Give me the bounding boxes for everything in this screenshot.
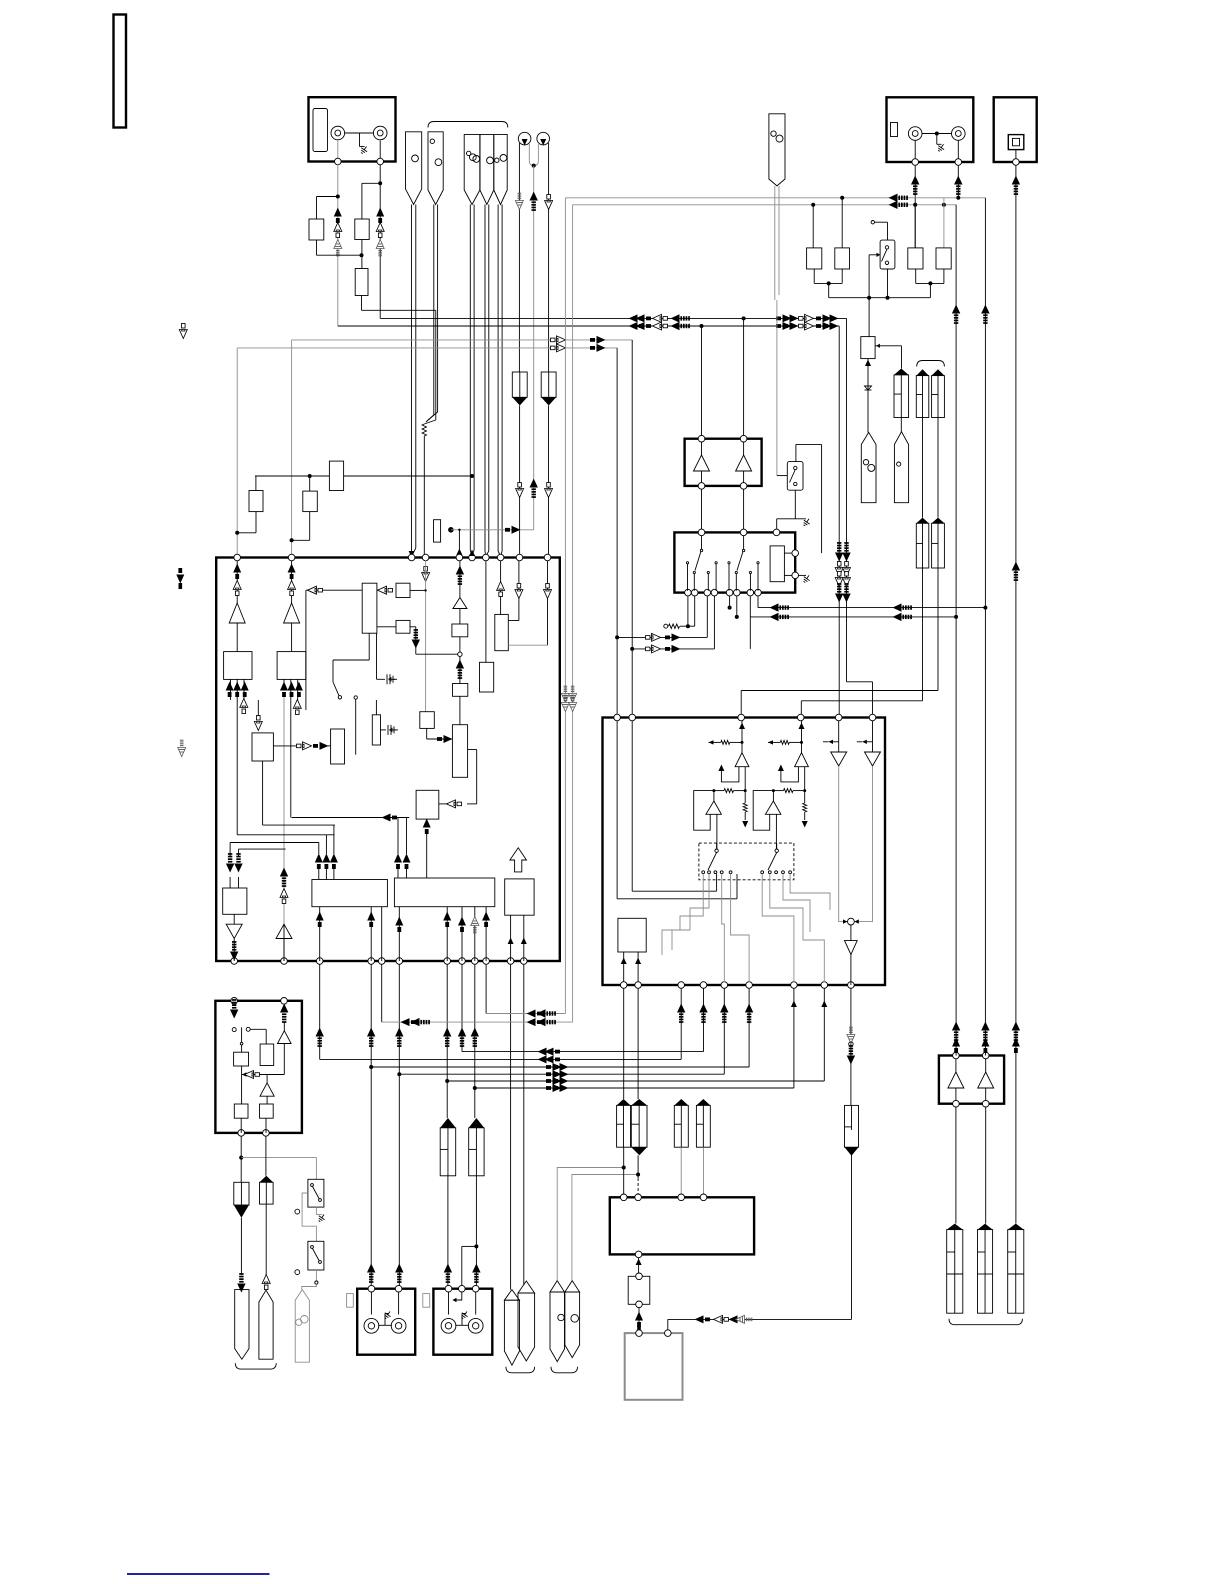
page margin bar bbox=[114, 15, 127, 128]
node on antenna branch bbox=[448, 527, 454, 533]
control wire down to V201 bbox=[868, 255, 870, 337]
component R201 bbox=[807, 248, 822, 269]
wires U401 to U403 bbox=[701, 489, 703, 532]
main block U402 (video/chroma) bbox=[603, 718, 886, 986]
U402 amp ch2 bbox=[795, 753, 809, 767]
block U323 bbox=[495, 614, 509, 650]
row to U403 pin4 bbox=[632, 648, 715, 650]
bundle row3 bbox=[371, 1066, 749, 1068]
arrow into U322 bottom bbox=[423, 819, 431, 835]
block H and arrows bbox=[420, 712, 435, 729]
pin CN201-1 bbox=[912, 159, 919, 166]
cable pair from CN104 bbox=[469, 205, 471, 551]
wire U312 to bottom pin bbox=[283, 697, 285, 924]
gray row B bbox=[382, 1021, 573, 1023]
block U332 wide bbox=[312, 880, 388, 907]
component R203 bbox=[908, 248, 923, 269]
wire U314 right to v425 bbox=[410, 589, 426, 591]
RCA box CN307 bbox=[433, 1289, 492, 1355]
wire R104 bottom to riser b bbox=[255, 512, 257, 533]
twin flag CN309a bbox=[550, 1292, 565, 1362]
inline connector on antenna right bbox=[541, 372, 556, 397]
amp A2 in IC301 bbox=[291, 561, 293, 603]
component R106 on line bbox=[329, 461, 343, 490]
connector flag CN203 bbox=[861, 432, 876, 502]
block U315 bbox=[396, 620, 410, 633]
U402 ch2 main down bbox=[804, 767, 806, 791]
margin symbol hatched down arrow bbox=[178, 740, 186, 756]
wire amp mid to pin bbox=[283, 939, 285, 962]
cable pair from CN103 bbox=[433, 205, 435, 416]
connector flag CN105 bbox=[480, 134, 494, 204]
component R105 above IC301 bbox=[303, 491, 318, 512]
arrow out IC302 right bbox=[280, 1004, 288, 1023]
staircase to left pins bbox=[662, 930, 680, 955]
bus row2 top-right bbox=[573, 204, 957, 206]
brace under CN308 bbox=[506, 1367, 535, 1373]
switch S201 bottom wire bbox=[887, 269, 889, 298]
block U502 bbox=[628, 1276, 650, 1304]
module inside CN101 bbox=[313, 109, 328, 152]
bus arrows bbox=[636, 322, 652, 330]
bus B2 bbox=[338, 325, 839, 327]
wire bus1 drop right bbox=[846, 318, 848, 681]
CN306 ground link bbox=[378, 1324, 392, 1326]
long wire U402 pin9 down bbox=[850, 988, 852, 1105]
wire U313 to U315 bbox=[377, 626, 396, 628]
amp in IC302 lower bbox=[260, 1083, 274, 1096]
down triangle under U331 bbox=[226, 924, 242, 938]
wire J1-J2 bbox=[345, 132, 374, 134]
U402 ch2 feedback bracket bbox=[753, 791, 773, 831]
component R202 bbox=[835, 248, 850, 269]
holes CN203 bbox=[863, 460, 868, 465]
twin flag CN308b bbox=[518, 1293, 535, 1361]
down triangle under mix node bbox=[850, 925, 852, 941]
wire IC302 pin1 down bbox=[240, 1136, 242, 1182]
block U317 bbox=[252, 733, 273, 761]
wire R105 bottom bbox=[309, 512, 311, 541]
S-video jack bbox=[1008, 135, 1024, 150]
two-triangle box U504 bbox=[939, 1056, 1004, 1104]
feed to S401 bbox=[777, 475, 787, 477]
component R102 bbox=[355, 219, 369, 240]
signal arrows on CN101-2 wire bbox=[376, 208, 384, 224]
pin CN201-2 bbox=[955, 159, 962, 166]
loop antenna terminal A2 bbox=[537, 132, 550, 145]
inline connector on antenna left bbox=[512, 372, 527, 397]
node under R201/R202 bbox=[813, 269, 815, 283]
twin flag CN309b bbox=[565, 1292, 580, 1358]
battery connector CN503 bbox=[1008, 1230, 1024, 1314]
connector box CN101 (tuner/ant in) bbox=[309, 97, 396, 161]
pin wires below IC301 bbox=[319, 964, 321, 1059]
stems CN211 to CN212 bbox=[922, 418, 924, 518]
blue reference line bbox=[127, 1573, 270, 1575]
wire R103 to bus corner bbox=[361, 296, 363, 311]
flag CN302 bbox=[235, 1290, 249, 1360]
component V201 bbox=[861, 337, 875, 359]
flag connector CN205 top middle bbox=[769, 114, 785, 186]
wires U334 to pins bbox=[510, 915, 512, 961]
arrows under U402 pins bbox=[680, 988, 682, 1059]
bus row1 top-right bbox=[565, 197, 985, 199]
wires CN401 to box bbox=[623, 1147, 625, 1197]
wire row1 to R202 bbox=[841, 198, 843, 248]
jog to pin wire bbox=[424, 420, 436, 424]
U402 interior ch1 input bbox=[741, 721, 743, 753]
switch S201 control in bbox=[869, 254, 880, 256]
tab left of CN307 bbox=[423, 1294, 430, 1308]
wires U332/U333 to bottom pins bbox=[319, 907, 321, 961]
inline connector CN301 black bbox=[234, 1182, 249, 1205]
component R107 small bbox=[434, 520, 441, 542]
wire CN303 to flag bbox=[265, 1204, 267, 1275]
jack stub 2 bbox=[379, 141, 381, 159]
row U403 pin8 to v985 bbox=[757, 596, 759, 608]
wire row2 to R204 bbox=[943, 198, 945, 248]
holes in CN104-106 bbox=[467, 151, 471, 155]
stems CN212 down bbox=[922, 568, 924, 701]
tall block U313 bbox=[362, 583, 377, 633]
wire J3-J4 bbox=[922, 133, 951, 135]
down arrowhead flagA wire bbox=[409, 551, 415, 558]
U402 ch2 output to switch bbox=[775, 814, 777, 849]
left risers in U402 bbox=[616, 721, 618, 899]
arrows U313 to U314 bbox=[378, 586, 393, 594]
link to flag CN304 bbox=[302, 1284, 317, 1289]
CN307 ground link bbox=[455, 1324, 469, 1326]
antenna inner U link bbox=[529, 144, 538, 166]
switch S201 bbox=[880, 240, 895, 269]
sub block IC302 bbox=[215, 1001, 302, 1133]
U402 bottom pins bbox=[620, 982, 627, 989]
pin CN101-2 bbox=[377, 158, 384, 165]
triangle in U401 b bbox=[736, 455, 752, 471]
U501 top pins bbox=[620, 1194, 627, 1201]
second pole of switch bbox=[246, 1027, 250, 1031]
big hollow up arrow bbox=[510, 848, 527, 872]
S302 side terminal bbox=[295, 1270, 300, 1275]
U402 ch1 output to switch bbox=[716, 814, 718, 849]
margin symbol hollow down arrow bbox=[179, 324, 187, 339]
drop U402 left bbox=[616, 348, 618, 718]
diode D201 bbox=[865, 386, 872, 390]
roof connector CN402b bbox=[696, 1105, 710, 1147]
gray branch to switch S301 bbox=[241, 1157, 316, 1159]
dotted switch box in U402 bbox=[699, 843, 794, 880]
wires U402 pins down to CN401 pair bbox=[623, 988, 625, 1099]
U402 down amp a bbox=[838, 721, 840, 752]
node under R203/R204 bbox=[915, 269, 917, 283]
wire row2 to R201 bbox=[812, 205, 814, 248]
amp and blocks on v460 bbox=[459, 561, 461, 598]
jack stubs CN201 bbox=[914, 141, 916, 159]
wire U501 to U502 bbox=[638, 1258, 640, 1277]
switch S201 feed top bbox=[871, 221, 874, 224]
signal arrows on CN101-1 wire bbox=[334, 208, 342, 224]
bundle row6 bbox=[475, 1087, 794, 1089]
triangle amp in IC302 upper bbox=[278, 1031, 292, 1044]
line down from U313 left chain bbox=[305, 590, 307, 710]
wire v956 down to U504 bbox=[955, 205, 957, 1056]
IC301 top pins bbox=[234, 554, 241, 561]
roof connector CN303 bbox=[260, 1182, 274, 1204]
U403 right pins bbox=[792, 550, 799, 557]
S301 side terminal bbox=[295, 1209, 300, 1214]
amp A1 in IC301 bbox=[236, 561, 238, 603]
wire U320 right to U322 bbox=[468, 749, 477, 751]
cap C311 with ground bbox=[376, 633, 378, 679]
RCA jacks CN306 bbox=[364, 1318, 379, 1333]
feed wire from V201 to CN204 bbox=[875, 345, 901, 347]
arrow U502 to U503 bbox=[638, 1307, 640, 1333]
wire CN201-2 down bbox=[957, 165, 959, 198]
brace over flag group bbox=[428, 122, 508, 128]
levers in U403 bbox=[701, 536, 703, 549]
drop U402 right bbox=[631, 340, 633, 718]
row to U403 pin3 bbox=[617, 636, 707, 638]
component R103 bbox=[355, 269, 368, 296]
margin symbol black down arrow bbox=[176, 568, 184, 584]
RCA jack J2 bbox=[373, 126, 387, 140]
IC302 top pins bbox=[231, 998, 238, 1005]
roof connector CN211a bbox=[916, 376, 929, 418]
holes CN205 bbox=[771, 131, 776, 136]
block U314 bbox=[396, 583, 410, 597]
roof connector CN210 single bbox=[894, 375, 909, 418]
jack stub 1 bbox=[337, 141, 339, 159]
block U421 in U402 bbox=[618, 918, 646, 952]
cable pair from CN102 bbox=[411, 205, 413, 549]
branch antenna to pin bbox=[451, 529, 534, 531]
S301 to S302 link bbox=[302, 1193, 316, 1241]
arrows under U311 bbox=[226, 682, 234, 698]
U402 ch1 feedback bracket bbox=[694, 791, 714, 831]
hollow down arrow v547 bbox=[547, 561, 549, 646]
U402 amp ch2 b bbox=[772, 791, 774, 801]
RCA box CN306 bbox=[357, 1289, 415, 1355]
switch box S401 bbox=[787, 462, 803, 491]
cable pair from CN106 bbox=[497, 205, 499, 552]
loop antenna terminal A1 bbox=[518, 132, 531, 145]
black arrow under U331 bbox=[230, 941, 238, 960]
gray vertical trunk a bbox=[564, 198, 566, 1014]
IC301 main block bbox=[216, 558, 560, 962]
IC302 bottom pins bbox=[238, 1130, 245, 1137]
RCA jack J1 bbox=[331, 126, 345, 140]
hollow down arrow v518 bbox=[518, 561, 520, 621]
arrows U317 to U318 bbox=[273, 745, 297, 747]
arrow into IC302 bbox=[230, 999, 238, 1018]
wire R101 to node bbox=[316, 240, 318, 255]
roof connector CN211b bbox=[932, 376, 945, 418]
arrows above U333 wide bbox=[394, 854, 402, 870]
U402 amp ch1 bbox=[735, 753, 749, 767]
branch CN311 to B2 middle pin bbox=[462, 1245, 477, 1247]
amp up triangle mid bbox=[276, 924, 292, 938]
triangle in U401 a bbox=[694, 455, 710, 471]
ground tap bbox=[359, 133, 361, 147]
RCA jack J3 bbox=[908, 127, 922, 141]
wire CN201-1 down bbox=[914, 165, 916, 248]
connector flag CN104 bbox=[464, 134, 480, 204]
contacts in dotted box bbox=[702, 871, 705, 874]
flag CN304 gray bbox=[295, 1290, 309, 1363]
roof connector CN310 bbox=[440, 1128, 456, 1176]
row U403 pin7 to v956 bbox=[749, 596, 751, 649]
gray feeds to CN309 bbox=[557, 1168, 624, 1281]
hollow down arrow on v425 bbox=[422, 567, 430, 582]
branch to R101 bbox=[317, 196, 338, 198]
bundle row4 bbox=[399, 1073, 724, 1075]
gray feedback row a bbox=[741, 690, 938, 692]
battery connector CN501 bbox=[947, 1230, 963, 1314]
brace under CN302/CN305 bbox=[235, 1363, 276, 1369]
module inside CN201 bbox=[891, 123, 898, 137]
component R101 bbox=[309, 219, 324, 240]
contact circles U403 bbox=[686, 562, 688, 564]
wire bus2 drop right bbox=[838, 326, 840, 718]
flag CN305 tall bbox=[259, 1290, 273, 1359]
wire bus2 to U401 bbox=[701, 326, 703, 436]
ground tap CN201 bbox=[936, 134, 938, 145]
U402 ch1 main down bbox=[744, 767, 746, 791]
wire CN202 down (long) bbox=[1015, 165, 1017, 1223]
roof connector CN212b bbox=[932, 523, 945, 568]
U501 bottom pin bbox=[635, 1251, 642, 1258]
arrows under U312 bbox=[280, 682, 288, 698]
staircase wires under dotted box bbox=[680, 874, 703, 930]
block in IC302 b bbox=[260, 1044, 274, 1066]
twin flag CN308a bbox=[504, 1300, 519, 1365]
component R204 bbox=[936, 248, 951, 269]
cap C312 with ground bbox=[381, 729, 387, 731]
U402 amp ch1 b bbox=[713, 791, 715, 801]
holes CN304 bbox=[296, 1319, 302, 1325]
connector box CN202 (S-video) bbox=[994, 97, 1037, 162]
roof connector CN401b bbox=[631, 1105, 647, 1147]
wire U313 bottom bbox=[368, 633, 370, 660]
roof connector CN311 bbox=[469, 1128, 484, 1176]
wire CN301 to flag bbox=[240, 1218, 242, 1275]
wire U317 down bbox=[262, 761, 264, 825]
connector box CN201 (AV out) bbox=[887, 97, 974, 162]
horizontal line through R106 bbox=[255, 475, 329, 477]
wire bus1 to U401 bbox=[743, 318, 745, 435]
U402 ch1 shaft bracket bbox=[721, 767, 739, 782]
block U503 gray box bbox=[625, 1333, 683, 1400]
stem CN205 bbox=[774, 186, 776, 300]
U402 down amp b bbox=[872, 721, 874, 752]
block U318 bbox=[331, 729, 345, 764]
U403 top pins bbox=[698, 529, 705, 536]
U402 ch2 shaft bracket bbox=[781, 767, 799, 782]
wire R104 to riser bbox=[255, 476, 257, 491]
wire from CN101-1 down bbox=[337, 165, 339, 326]
component R104 above IC301 bbox=[249, 491, 263, 512]
gray row from IC301 pin to U402 bbox=[292, 339, 633, 341]
bundle row1 bbox=[462, 1051, 704, 1053]
block U334 bbox=[505, 879, 534, 915]
tab left of CN306 bbox=[347, 1294, 354, 1308]
hole in CN102 bbox=[412, 155, 419, 162]
bundle row5 bbox=[447, 1080, 824, 1082]
wire R102 to R103 bbox=[361, 240, 363, 269]
roof connector CN402a bbox=[674, 1105, 688, 1147]
ground at U403 right pin bbox=[798, 574, 806, 576]
S401 bottom to ground and U403 bbox=[794, 490, 796, 519]
arrow inside CN307 bbox=[453, 1292, 462, 1300]
connector flag CN102 bbox=[406, 132, 422, 205]
block U311 bbox=[224, 652, 252, 680]
gray feedback row b bbox=[801, 700, 922, 702]
branch to R102 bbox=[362, 182, 380, 184]
U402 interior ch2 input bbox=[801, 721, 803, 753]
wire IC302 pin2 to CN303 bbox=[265, 1136, 267, 1176]
roof connector CN401a bbox=[617, 1105, 631, 1147]
block U331 bbox=[223, 888, 247, 914]
U403 bottom pins bbox=[685, 589, 692, 596]
stem CN310 down bbox=[447, 1176, 449, 1289]
antenna wire right bbox=[548, 143, 550, 372]
S301 ground bbox=[315, 1207, 317, 1214]
wire v985 down to U504 bbox=[984, 198, 986, 1056]
wires U504 to battery connectors bbox=[955, 1107, 957, 1224]
levers in dotted box bbox=[715, 849, 718, 852]
brace under battery connectors bbox=[949, 1319, 1022, 1325]
connector flag CN103 bbox=[428, 132, 443, 205]
connector CN403 bbox=[845, 1105, 859, 1147]
cable pair from CN105 bbox=[484, 205, 486, 552]
RCA jack J4 bbox=[952, 127, 966, 141]
stem CN210 to CN204 bbox=[900, 418, 902, 432]
bundle row2 bbox=[320, 1058, 682, 1060]
arrowhead above pin 472 bbox=[469, 550, 475, 557]
riser to CN403 bbox=[851, 1155, 853, 1320]
black point under CN401b bbox=[631, 1147, 647, 1155]
triangle in U504 a bbox=[948, 1072, 964, 1088]
link node wires bbox=[829, 297, 931, 299]
S302 output bbox=[315, 1270, 317, 1281]
gray vertical trunk b bbox=[572, 205, 574, 1022]
arrows on antenna wires bbox=[515, 193, 523, 209]
block in U403 bbox=[770, 546, 784, 582]
battery connector CN502 bbox=[978, 1230, 993, 1314]
connector flag CN204 bbox=[894, 432, 908, 503]
gray riser to IC301 pin b bbox=[236, 348, 238, 557]
arrows above U332 wide bbox=[315, 854, 323, 870]
IC301 bottom pins bbox=[231, 958, 238, 965]
block U333 wide bbox=[394, 878, 494, 907]
S401 top loop to U403 right pin bbox=[795, 444, 797, 461]
rows under U403: resistor row bbox=[664, 624, 668, 628]
brace under CN309 bbox=[551, 1367, 578, 1373]
hole CN204 bbox=[897, 462, 901, 466]
narrow block U316 bbox=[372, 715, 380, 745]
mix node circle bbox=[848, 918, 855, 925]
gray riser to IC301 pin a bbox=[291, 340, 293, 557]
feed wire U503 right pin bbox=[667, 1319, 669, 1330]
bus arrows bbox=[636, 314, 652, 322]
arrow chain on bus drop bbox=[842, 542, 850, 561]
stem CN311 down bbox=[475, 1176, 477, 1289]
arrow chain on bus drop bbox=[835, 542, 843, 561]
junction row in IC302 bbox=[241, 1066, 243, 1075]
wire CN201-1 to R203 bbox=[914, 205, 916, 248]
antenna center wire bbox=[533, 166, 535, 530]
hollow up arrow v500 bbox=[500, 561, 502, 615]
